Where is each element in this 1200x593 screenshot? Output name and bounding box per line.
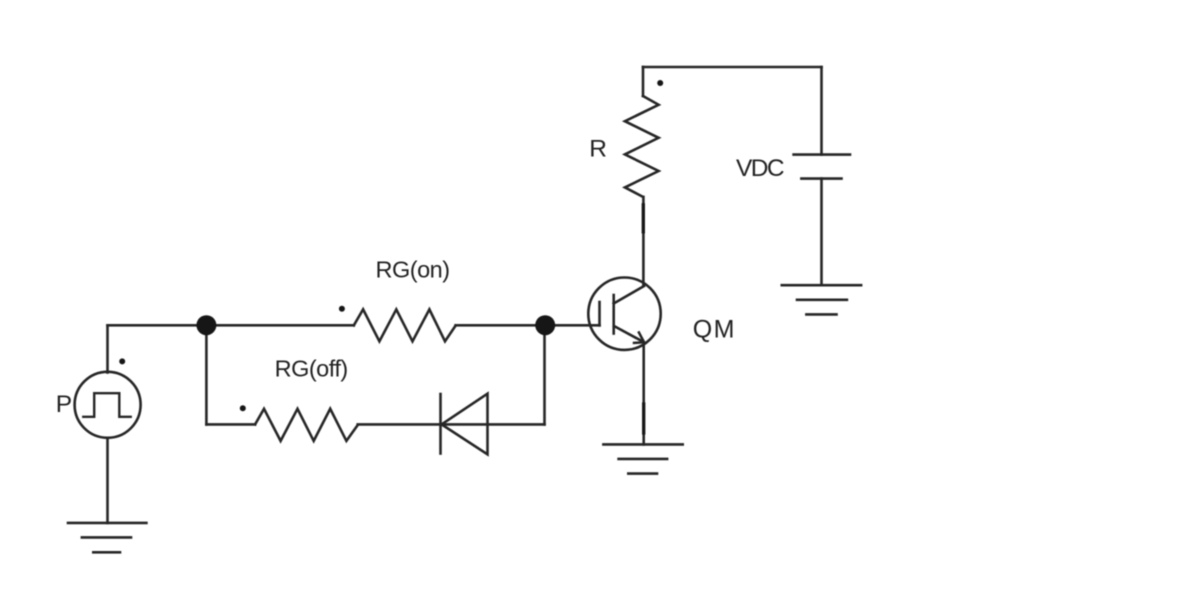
wire R top xyxy=(642,67,645,96)
node A xyxy=(196,315,216,335)
wire rail to gate xyxy=(456,324,600,327)
wire node A down xyxy=(205,325,208,424)
wire emitter down xyxy=(642,342,645,444)
svg-text:QM: QM xyxy=(693,315,736,343)
transistor QM (IGBT) xyxy=(588,278,660,350)
pin dot near P xyxy=(119,358,125,364)
resistor RG(off) xyxy=(255,409,358,441)
wire VDC to ground xyxy=(820,179,823,286)
svg-text:RG(off): RG(off) xyxy=(275,356,348,382)
svg-text:VDC: VDC xyxy=(736,155,784,182)
node B xyxy=(535,315,555,335)
wire to RG(off) xyxy=(206,423,255,426)
pulse source P xyxy=(75,372,141,438)
pin dot near RG(on) xyxy=(339,306,345,312)
wire main rail left xyxy=(108,324,354,327)
wire P top to rail xyxy=(106,325,109,372)
resistor RG(on) xyxy=(354,309,456,341)
pin dot near R xyxy=(657,80,663,86)
wire collector up xyxy=(642,197,645,286)
source VDC xyxy=(794,155,850,179)
pin dot near RG(off) xyxy=(240,405,246,411)
svg-text:RG(on): RG(on) xyxy=(376,257,450,283)
wire RG(off) to diode to node B xyxy=(358,423,545,426)
collector pin overlap xyxy=(642,205,645,232)
svg-text:P: P xyxy=(56,391,72,418)
ground under VDC xyxy=(782,285,861,314)
ground under QM xyxy=(603,444,682,473)
resistor R xyxy=(625,96,659,197)
wire top rail xyxy=(643,66,822,69)
svg-text:R: R xyxy=(589,135,607,162)
ground under P xyxy=(68,523,146,552)
wire down to VDC xyxy=(820,67,823,155)
diode D1 xyxy=(441,394,488,455)
emitter pin overlap xyxy=(642,404,645,433)
wire up to node B xyxy=(543,325,546,424)
wire P bottom xyxy=(106,438,109,523)
